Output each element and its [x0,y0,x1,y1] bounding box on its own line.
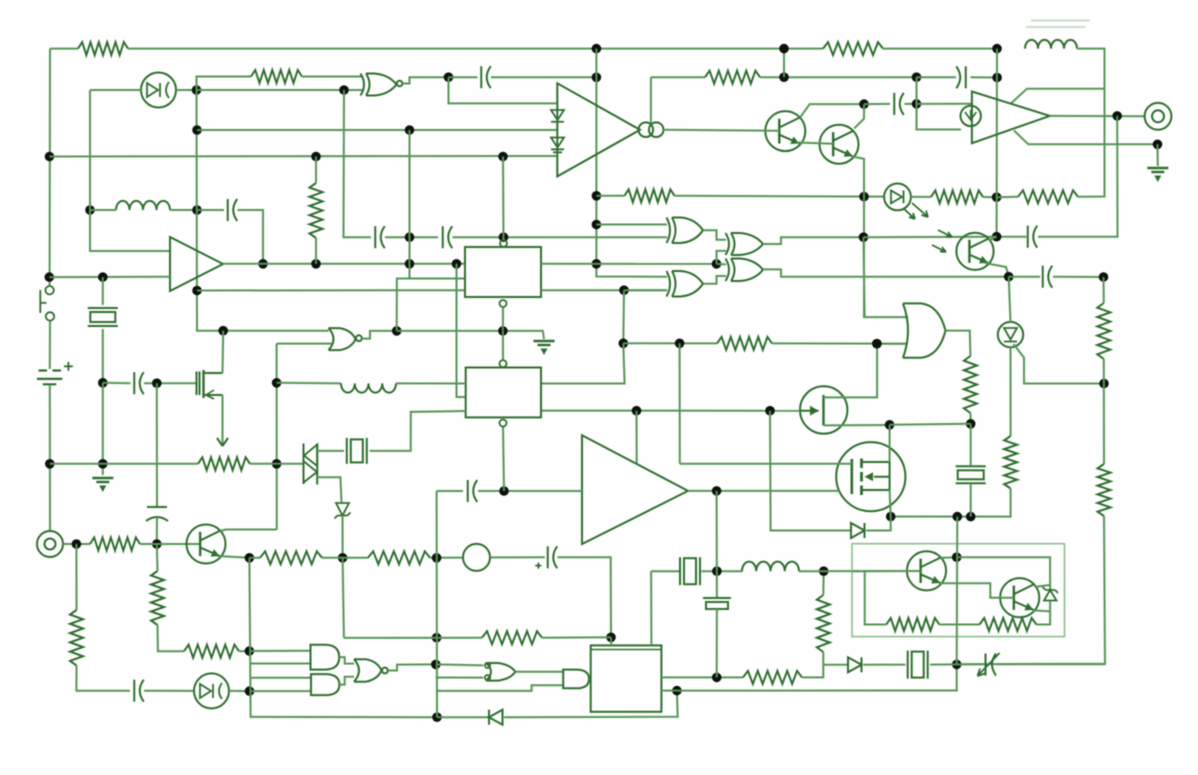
capacitor C5 [147,506,167,508]
wire R19 to x996 [983,196,997,198]
node x76/y544 [72,539,82,549]
diode D4 [489,710,503,725]
node x249/y691 [245,686,255,696]
wire x770 to diode [770,411,851,531]
node x624/y290 [619,285,629,295]
wire R24 to x916 [760,76,917,78]
wire U12 out [688,490,840,492]
inductor L2 [341,383,396,392]
wire U18 out [589,678,591,680]
IC box U13 [466,368,541,418]
wire U5 bottom to y331 [502,307,504,331]
xor gate U8 [726,233,764,255]
diode D3 [848,657,862,672]
wire y277 to C11 [1009,276,1040,278]
diode D9 [851,523,865,538]
node x679/y343 [675,339,685,349]
wire R3 to XOR1 [302,76,362,78]
wire x249 rail [249,558,437,717]
LED D7 circle [884,184,911,211]
node x716/y677 [712,673,722,683]
transistor Q10 [1000,578,1039,617]
wire x997 vertical [996,49,998,237]
IC U13 top pin circle [500,360,507,367]
wire Q3 collector [220,530,277,532]
wire U11 out [946,331,971,356]
node x456/y264 [452,259,462,269]
wire D1 to node [176,89,197,91]
wire y210 a [90,209,116,211]
wire Q10 collector lead [1034,585,1050,587]
node x503/y237 [499,232,509,242]
wire y104 to C9 [864,103,890,105]
wire C13 b [971,76,998,78]
node x997/y49 [992,44,1002,54]
wire C12 to U12 [478,490,582,492]
wire y157 bus [50,155,558,158]
nor gate U4 [329,328,356,350]
wire y557 to x1050 [957,557,1050,589]
wire y691 jog [437,685,563,691]
wire U15 out jog [339,677,354,685]
resistor R25 [1018,190,1078,203]
wire U14 out jog [339,657,354,664]
node x197/y290 [192,286,202,296]
wire x916 vertical [917,77,962,129]
nor gate U16 [354,659,382,682]
crystal X4 [907,651,909,679]
node x864/y104 [859,99,869,109]
wire R5 to OR1 [772,342,906,344]
JFET Q5 [800,386,847,433]
node x263/y264 [258,259,268,269]
wire U2 out jog [403,77,449,83]
IC box U19 [591,645,662,711]
wire R7 to R8 [158,625,185,651]
wire trimmer to corner [996,663,1105,665]
wire U7 input B [624,289,667,291]
wire y558 c [430,557,463,559]
node x996/y237 [992,232,1002,242]
wire x396 up jog [397,279,465,331]
wire Q2 emitter down [853,157,908,318]
MOSFET Q6 [836,442,905,511]
wire x864 Q2 collector [854,104,864,128]
wire x157 b [156,517,158,544]
phototransistor Q4 [956,233,993,270]
wire y130 bus [197,129,557,131]
wire left rail x50c [49,386,51,532]
node x50/y157 [45,152,55,162]
wire U7 out to U9 [703,276,726,284]
wire x679 vertical [679,343,681,464]
wire y691 to AND2 [250,690,312,692]
wire x651 stub [650,77,652,123]
wire box3 out y690 [661,690,677,692]
wire x651 to box3 [650,571,652,645]
U1 output circles [639,122,654,137]
resistor R1 [78,42,128,55]
node x716/y571 [712,566,722,576]
wire x456 vertical [457,264,466,397]
wire y410 bus [541,410,800,412]
wire y571 a [651,570,679,572]
wire triac gate [317,477,341,502]
resistor R5 [717,337,772,350]
resistor R16 [886,618,939,631]
wire left rail x50a [49,49,51,287]
node x770/y410 [765,406,775,416]
resistor R10 [70,610,83,666]
C7 plus sign [535,563,541,569]
wire U6 input A [596,224,667,226]
MOSFET Q7 [197,372,200,396]
LED D7 arrows [903,208,915,219]
node x504/y491 [499,486,509,496]
resistor R11 [260,551,322,564]
wire C15 to x596 [491,76,596,78]
wire Q3 emitter [220,556,250,558]
wire U9 out y277 [763,269,1009,276]
crystal X5 [956,465,986,467]
resistor R4 [310,183,323,238]
wire x409 vertical [409,130,411,279]
IC U13 bottom pin circle [500,420,507,427]
node x90/y210 [85,205,95,215]
resistor R15 [817,595,830,652]
wire U5 out y290 [541,289,667,291]
wire U8 input B [717,251,727,264]
wire U3 output y264 [223,263,465,265]
wire x436 rail [436,491,438,717]
zener D10 [336,503,349,516]
node x996/y197 [992,192,1002,202]
wire x1103 a [1103,277,1105,303]
potentiometer arrow [217,438,228,446]
wire SCR cathode [1010,347,1012,436]
U10 input marker circle [961,106,981,126]
wire X5 top [970,424,972,466]
node x157/y544 [152,539,162,549]
node x436/y637 [432,633,442,643]
wire y196 b [675,195,885,198]
node x276/y383 [272,378,282,388]
wire top rail right [883,48,997,50]
node x435/y664 [431,660,441,670]
wire U8 out [763,237,864,244]
node x716/y264 [712,259,722,269]
xor gate U2 [361,74,397,96]
wire y637 row [344,637,482,639]
IC U5 top pin circle [500,240,507,247]
op-amp U1 [557,83,640,176]
node x1103/y277 [1099,272,1109,282]
wire y383 left [103,382,131,384]
wire U6 out to U8 [703,230,726,240]
resistor R8 [184,645,239,658]
node x276/y464 [272,459,282,469]
capacitor C9 [893,93,895,115]
wire R8 to node [239,650,249,652]
node x103/y383 [98,378,108,388]
capacitor C12 [467,480,469,502]
wire x1117 vertical [1038,116,1118,237]
wire R20 to y516 [891,489,1011,517]
trimmer capacitor C14 [985,654,987,676]
wire y464 b [250,463,277,465]
wire y77 right [651,76,705,78]
wire box2 circle to y491 [503,427,504,491]
and gate U14 [311,645,340,670]
SCR D8 [998,322,1023,347]
node x916/y77 [912,72,922,82]
wire x157 c [156,544,159,571]
node x196/y90 [192,85,202,95]
transistor Q2 [820,125,859,164]
wire O1 to C7 [490,556,545,558]
node x450/y77 [444,72,454,82]
wire y331 to gnd [397,331,544,339]
node x611/y637 [606,633,616,643]
wire R14 to x823 [802,652,823,677]
wire Q5 top lead [824,344,878,398]
wire Q7 source down [222,395,224,446]
crystal X3 [679,557,681,585]
resistor R20 [1004,436,1017,489]
wire y343 row [623,342,717,344]
wire y690 long [677,664,957,690]
node y157/x316 [311,152,321,162]
IC U5 bottom pin circle [500,300,507,307]
wire x76 a [75,544,77,610]
wire Q9 base [852,570,921,572]
node x249/y558 [245,553,255,563]
wire x450 down to amp input [449,77,558,103]
resistor R13 [482,631,542,644]
wire y663 tap [250,663,311,665]
wire gnd G1 stem [1157,144,1159,166]
wire C6 to D2 [144,690,194,692]
wire C10 to x996 [997,236,1027,238]
wire SCR anode [1009,277,1011,322]
wire triac left [277,463,304,465]
resistor R14 [743,671,802,684]
wire node to trimmer [957,663,984,665]
connector J3 [37,531,63,557]
wire y210 c [197,209,224,211]
capacitor C4 [133,372,135,394]
LED D7 diode [891,191,904,204]
wire y237 b [453,236,668,238]
wire x716 rail [716,491,718,597]
node x1157/y144 [1153,140,1163,150]
wire U1 out to Q1 [664,130,780,131]
node x676/y690 [672,686,682,696]
wire X5 bottom [970,484,972,517]
node x344/y90 [339,85,349,95]
wire X1 top [102,277,104,305]
wire L2 to box2 [396,382,466,384]
node x409/y130 [405,125,415,135]
node x50/y277 [45,272,55,282]
wire Q4 emitter [985,263,1009,277]
wire y558 b [322,557,368,559]
node x436/y558 [432,553,442,563]
node x596/y196 [592,191,602,201]
node x876-343 dup [872,339,882,349]
node x1008/y277 [1004,272,1014,282]
capacitor C6 [133,680,135,702]
or gate U11 [903,303,946,357]
wire x956 rail [956,517,959,665]
wire C9 to x916 [905,103,917,105]
resistor R22 [1098,464,1111,516]
inductor L1 [116,201,170,210]
wire U5 out y264 [541,263,717,265]
node x889/y425 [885,420,895,430]
wire top rail left [50,48,78,50]
wire top rail [128,48,823,50]
resistor R17 [980,618,1037,631]
inductor L4 [742,562,799,572]
wire left rail x50b [49,321,51,369]
wire U4 out jog [362,331,397,339]
node x103/y277 [98,272,108,282]
node x716/y491 [712,486,722,496]
varicap D2 circle [194,673,229,708]
wire C8 down [716,609,718,677]
wire x624 to box2 [541,343,625,383]
wire y665 to OR2 [436,664,483,665]
varicap D1 circle [141,73,176,108]
node x784/y77 [779,72,789,82]
node x1104/y383 [1099,379,1109,389]
wire SCR gate [1014,344,1105,384]
IC box U5 [465,247,541,297]
node x956/y664 [952,660,962,670]
node x103/y464 [98,459,108,469]
wire y383 mid [277,382,341,385]
resistor R2 [823,42,883,55]
triac Q8 [304,444,318,485]
wire Q6 drain [889,425,891,462]
wire y331 to box2 [502,331,504,360]
wire U10 out [1050,115,1145,117]
node x916/y104 [912,99,922,109]
xor U2 output bubble [397,81,403,87]
wire X2 right [370,411,466,451]
capacitor C13 [965,66,967,88]
zener D11 [1044,590,1057,601]
node y157/x503 [498,152,508,162]
node x864/y196 [859,192,869,202]
node x823/y571 [819,566,829,576]
wire x503 y157-box [502,157,505,240]
wire R16-R17 link [939,624,979,626]
or gate U17 [486,663,515,681]
wire U9 input A [717,263,727,266]
wire x596 vertical [596,49,667,277]
varicap D2 symbol [200,684,211,698]
and gate U15 [311,674,339,695]
node x956/y557 [952,552,962,562]
wire C7 to x611 [558,557,612,637]
wire x1103 b [1103,359,1105,464]
resistor R21 [1097,303,1110,359]
resistor R3 [251,70,302,83]
wire y290 bus [197,289,465,291]
wire R4 top [315,157,317,184]
wire U17 out [515,671,563,673]
capacitor C8 [703,597,731,599]
resistor R24 [705,71,760,84]
IC U19 top line [591,649,662,651]
wire D9 to x890 [867,517,891,531]
resistor R19 [931,190,983,203]
node x342/y558 [338,553,348,563]
resistor R18 [625,189,675,202]
wire Q1 emitter to Q2 base [797,143,834,144]
wire y664 tap [823,664,848,666]
wire U11 input B [877,343,906,345]
crystal X1 [88,307,118,309]
wire U4 input B [277,343,332,345]
wire C13 a [917,76,957,78]
node x316/y264 [311,259,321,269]
inductor L3 [1025,40,1077,49]
node x864/y237 [859,232,869,242]
xor gate U6 [667,218,704,244]
wire y196 a [596,195,624,197]
wire R9 to Q3 [140,543,200,545]
op-amp U10 [972,92,1050,144]
node x623/y343 [619,339,629,349]
resistor R12 [368,551,430,564]
wire Q9 collector lead [941,556,957,559]
node x957/y516 [953,512,963,522]
capacitor C10 [1027,226,1029,248]
wire x864 to OR1 [864,237,865,317]
wire LED to R19 [911,196,931,198]
resistor R9 [90,538,140,551]
wire y677 tap [250,677,311,679]
wire R25 to x1104 [1078,49,1105,197]
node x249/y651 [245,646,255,656]
lamp O1 [463,544,490,571]
crystal X2 [346,438,348,464]
battery B1 [37,371,62,385]
wire jog y90-y76 [197,77,252,91]
node x997/y77 [992,73,1002,83]
node x970/y516 [966,512,976,522]
wire X1 bottom [102,329,104,383]
xor gate U7 [667,271,704,297]
wire x784 vertical [783,49,785,78]
wire J3 to R9 [63,543,90,545]
node x596/y49 [592,44,602,54]
node x596/y224 [592,220,602,230]
resistor R23 [964,356,977,413]
transistor Q3 [187,525,226,564]
node x877/y344 [872,339,882,349]
capacitor C3 [442,226,444,248]
wire y571 b [702,570,743,572]
diode D5 [551,110,564,120]
wire x343 down [343,558,344,638]
ground G2 [92,477,113,480]
node x970/y424 [966,419,976,429]
wire zener to y558 [342,516,344,558]
